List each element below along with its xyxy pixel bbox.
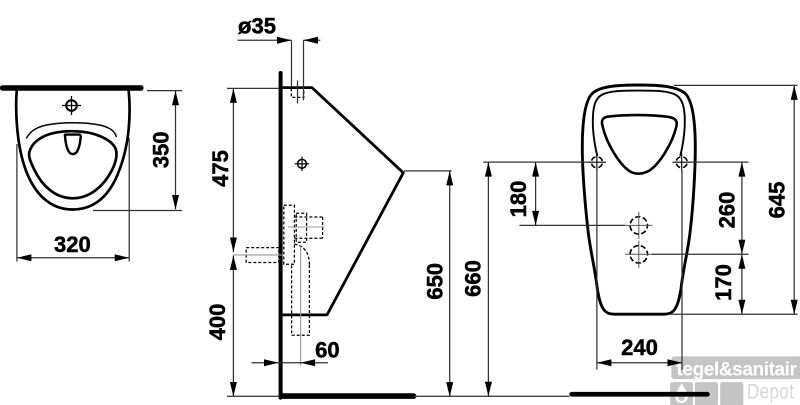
floor line (side view) [279, 393, 417, 399]
extension lines dia35 [291, 40, 293, 86]
svg-text:170: 170 [711, 264, 736, 301]
urinal profile outline (side view) [283, 88, 404, 315]
pipe centerlines [233, 227, 324, 366]
bowl opening (front view) [602, 115, 677, 174]
svg-text:60: 60 [315, 338, 339, 363]
dimension line 260 [741, 162, 743, 254]
svg-text:ø35: ø35 [238, 14, 276, 39]
wall line (left view) [0, 85, 144, 91]
dimension line 475 [232, 88, 234, 252]
urinal body outline (top view) [16, 90, 129, 210]
inlet spigot dashed box [291, 88, 304, 97]
dimension line 350 [175, 91, 177, 210]
extension line lower outlet [652, 253, 749, 255]
dimension line 170 [741, 254, 743, 314]
outlet hole lower (front view) [625, 241, 652, 268]
svg-text:260: 260 [715, 192, 740, 229]
mounting hole crosshair right (front view) [673, 153, 691, 171]
dimension line 660 [487, 162, 489, 396]
svg-text:320: 320 [54, 232, 91, 257]
svg-text:350: 350 [149, 131, 174, 168]
mounting hole crosshair left (front view) [588, 153, 606, 171]
dimension line 320 [17, 257, 129, 259]
svg-text:645: 645 [765, 182, 790, 219]
logo square 3 [720, 382, 743, 405]
dimension line 60 [252, 362, 329, 364]
mounting hole crosshair (top view) [62, 96, 81, 115]
svg-text:650: 650 [423, 263, 448, 300]
svg-text:660: 660 [461, 260, 486, 297]
dimension line dia35 [238, 39, 292, 41]
dimension line 240 [597, 362, 682, 364]
extension line top (645 reference) [674, 84, 798, 86]
svg-text:400: 400 [205, 304, 230, 341]
siphon elbow and down pipe dashed [292, 244, 310, 335]
floor reference line between views [414, 395, 570, 397]
bowl basin edge (top view) [29, 131, 116, 198]
logo square 2 [695, 382, 718, 405]
logo banner tegel&sanitair [671, 356, 800, 380]
dimension line 650 [449, 171, 451, 397]
dimension line 400 [232, 256, 234, 397]
extension lines 240 [596, 171, 598, 370]
extension line upper outlet [520, 224, 626, 226]
floor reference line left of wall [227, 395, 279, 397]
extension line apex (650 reference) [404, 170, 452, 172]
svg-text:180: 180 [506, 181, 531, 218]
siphon flush pipe dashed (behind wall) [284, 205, 295, 264]
svg-text:Depot: Depot [747, 380, 794, 404]
water spout (top view) [65, 135, 81, 154]
extension line bottom of bowl (350 reference) [93, 210, 182, 212]
mounting hole crosshair (side view) [295, 157, 309, 171]
svg-text:tegel&sanitair: tegel&sanitair [677, 359, 798, 380]
rim opening arc (top view) [26, 123, 116, 139]
siphon inlet connector dashed [294, 213, 322, 242]
extension line top (475 reference) [227, 87, 279, 89]
extension lines 320 [16, 144, 18, 262]
extension line bottom (645/170 reference) [671, 313, 798, 315]
inner rim line (front view) [593, 91, 685, 156]
extension line top of wall (350 reference) [147, 90, 182, 92]
dimension line 180 [535, 162, 537, 225]
extension line mounting holes right [687, 161, 749, 163]
svg-text:475: 475 [208, 150, 233, 187]
extension line mounting holes left [483, 161, 591, 163]
dimension line 645 [793, 85, 795, 314]
inlet centerline [297, 81, 299, 104]
floor line (front view) [569, 392, 710, 397]
logo square 1 with drop icon [670, 382, 693, 405]
outlet pipe through wall dashed [246, 248, 279, 263]
svg-text:240: 240 [621, 335, 658, 360]
urinal outline (front view) [582, 85, 695, 314]
outlet hole upper (front view) [625, 212, 652, 239]
wall line (side view) [279, 73, 283, 398]
